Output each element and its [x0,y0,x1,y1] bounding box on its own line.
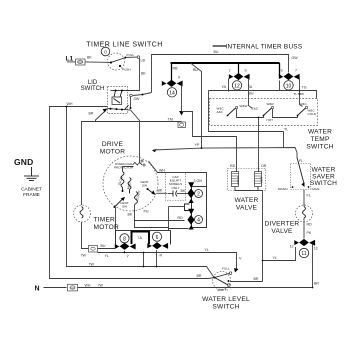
svg-text:BR: BR [254,277,259,281]
svg-text:PU: PU [144,210,149,214]
svg-text:WATER: WATER [308,129,332,136]
svg-text:WH: WH [67,102,73,106]
svg-text:TIMER LINE SWITCH: TIMER LINE SWITCH [86,42,163,49]
svg-text:YP: YP [195,143,200,147]
wire water level output [230,277,263,282]
TIMER MOTOR [74,205,91,222]
wire temp sw to saver feeder [284,128,289,148]
svg-text:9: 9 [245,69,247,73]
svg-text:TA: TA [248,85,253,89]
wire cam10 right arm [294,79,307,102]
svg-text:TL BBK: TL BBK [294,92,305,96]
diverter valve [296,205,313,222]
svg-text:RB: RB [173,67,179,71]
svg-text:SWITCH: SWITCH [81,86,105,92]
svg-text:WATER: WATER [234,197,258,204]
lid switch [108,85,140,114]
cam 4 [187,209,194,230]
label LID SWITCH [81,80,105,92]
wire start winding to cam4 [128,205,185,228]
svg-text:VALVE: VALVE [271,228,293,235]
svg-text:COLD: COLD [308,112,317,116]
terminal 0 [101,47,110,56]
wire cam14 branch trunk [182,112,237,173]
svg-text:RD: RD [230,164,236,168]
svg-text:7A: 7A [138,236,143,240]
cam 14 [162,63,183,97]
svg-text:SW: SW [142,184,147,188]
wire cent sw to block junction [169,207,185,231]
svg-text:MOTOR: MOTOR [100,149,125,156]
svg-text:ONLY: ONLY [171,186,179,190]
wire valve common to cam11 [235,187,296,282]
wire cam14 right arm down to timer motor connector [178,85,186,128]
GND [14,157,42,198]
wire top line to cam 10 [152,50,299,93]
svg-text:W&R: W&R [267,102,275,106]
label WATER LEVEL SWITCH [202,296,250,311]
svg-text:EMPTY: EMPTY [218,288,229,292]
svg-text:R: R [160,254,163,258]
svg-text:YL: YL [273,256,277,260]
svg-text:BR: BR [89,112,94,116]
svg-text:13: 13 [314,247,318,251]
cam 12 [229,63,250,90]
svg-text:9: 9 [281,69,283,73]
svg-text:14: 14 [169,91,175,97]
wire switch to riser [127,57,146,62]
wire lid switch output [133,93,152,96]
wire mid feeder line [209,91,317,132]
wire cam12 left arm [222,79,230,92]
wire left loop inner [66,106,215,278]
svg-text:TIMER: TIMER [94,217,116,224]
svg-text:7: 7 [295,69,297,73]
svg-text:FL: FL [307,194,311,198]
svg-text:SW: SW [122,205,127,209]
svg-text:SWITCH: SWITCH [306,144,333,151]
svg-text:PUSH: PUSH [122,68,131,72]
label DRIVE MOTOR [100,141,125,156]
svg-text:MOTOR: MOTOR [94,224,119,231]
wire saver feeder [152,143,297,158]
WATER TEMP SWITCH [210,99,318,126]
svg-text:TG: TG [302,86,307,90]
svg-text:DRIVE: DRIVE [102,141,124,148]
wire L1 to switch [85,56,111,63]
svg-text:BU: BU [193,68,198,72]
wire timer motor down to connector [81,222,98,258]
capacitor unit [166,173,189,201]
svg-text:12: 12 [234,84,240,90]
svg-text:BK: BK [158,188,163,192]
svg-text:BK: BK [181,189,186,193]
neutral N line [35,284,313,293]
svg-text:CABINET: CABINET [21,187,42,193]
svg-text:SW: SW [134,97,140,101]
svg-text:RD: RD [178,216,184,220]
wire buss branch to cold valve trunk [191,63,236,168]
wire left loop outer [50,102,215,279]
INTERNAL TIMER BUSS legend [213,44,303,51]
svg-text:4: 4 [197,218,200,224]
WATER LEVEL SWITCH [213,267,232,293]
svg-text:RD: RD [307,223,313,227]
svg-text:BU: BU [214,50,219,54]
svg-text:YA: YA [222,85,227,89]
svg-text:W&W: W&W [240,104,248,108]
wire cam4 bottom exit [169,228,189,230]
svg-text:BK: BK [141,72,146,76]
wire cam8 down [124,251,130,259]
svg-text:N: N [35,286,40,293]
svg-text:10: 10 [286,84,292,90]
wire diverter to cam11 [304,218,312,239]
wire lid switch to drive motor [131,110,140,159]
timer line switch [108,53,140,72]
svg-text:COLD: COLD [236,175,240,184]
wire riser down to lid switch [140,59,147,85]
svg-text:7W: 7W [89,263,95,267]
label DIVERTER VALVE [265,221,300,236]
wire hot valve feed [259,126,267,173]
label WATER VALVE [234,197,258,212]
svg-text:PULL: PULL [127,53,135,57]
wire motor to block 8/6 [115,208,117,231]
connector CO [67,59,85,65]
svg-text:BU: BU [249,92,254,96]
svg-text:FRAME: FRAME [23,192,40,198]
cam 10 [279,69,300,91]
svg-text:SWITCH: SWITCH [310,180,337,187]
wire lid switch to TM line [89,109,108,122]
svg-text:TEMP: TEMP [310,136,330,143]
label WATER TEMP SWITCH [306,129,333,151]
svg-text:WATER LEVEL: WATER LEVEL [202,296,250,303]
contact block 2/4 [169,179,207,230]
cam 11 [290,239,318,258]
svg-text:HOT: HOT [260,177,264,184]
svg-text:7W: 7W [81,254,87,258]
contact block 8/6 [115,231,171,250]
svg-text:8: 8 [123,237,126,243]
svg-text:BR: BR [314,282,319,286]
svg-text:C&C: C&C [252,107,259,111]
wire lower bus to water level full [98,248,243,273]
svg-text:YL: YL [105,254,109,258]
wire motor WH to block [149,161,207,187]
cam 2 [187,182,194,203]
svg-text:VALVE: VALVE [236,205,258,212]
svg-text:7W: 7W [98,284,104,288]
wire cam11 right arm to neutral [312,245,320,289]
svg-text:12: 12 [290,245,294,249]
svg-text:A&C: A&C [217,110,224,114]
label WATER SAVER SWITCH [310,167,337,188]
svg-text:LB: LB [141,59,146,63]
wire saver to diverter [304,190,311,207]
svg-text:CO: CO [70,286,75,290]
svg-text:HOT: HOT [267,118,274,122]
wire buss to cam10 left arm [279,63,281,76]
svg-text:GND: GND [14,157,34,167]
svg-text:BK: BK [128,213,133,217]
svg-text:DIVERTER: DIVERTER [265,221,300,228]
svg-text:6: 6 [156,235,159,241]
svg-text:BK: BK [87,56,92,60]
svg-text:FULL: FULL [222,267,230,271]
svg-text:INTERNAL TIMER BUSS: INTERNAL TIMER BUSS [226,44,303,51]
svg-text:BU: BU [101,244,106,248]
svg-text:SWITCH: SWITCH [212,304,239,311]
svg-text:2: 2 [197,192,200,198]
svg-text:3 GN: 3 GN [194,179,203,183]
wire TM line to timer motor [82,117,182,205]
svg-text:DRAIN: DRAIN [278,187,288,191]
svg-text:FL: FL [299,159,303,163]
wire cam6 down [156,250,163,267]
svg-text:PK: PK [307,231,312,235]
svg-text:BR: BR [197,274,202,278]
svg-text:WH: WH [159,169,165,173]
wire cam12 right arm into temp switch [248,79,254,102]
notch link 2-4 [185,204,190,211]
internal timer buss wire [171,63,280,71]
wire motor BK to capacitor [157,188,168,193]
svg-text:GW: GW [292,56,299,60]
wire junction riser [143,252,145,268]
svg-text:7: 7 [229,69,231,73]
svg-text:9: 9 [178,76,180,80]
svg-text:TL: TL [284,128,288,132]
svg-text:0: 0 [104,50,107,55]
svg-text:SAVE: SAVE [312,187,320,191]
WATER SAVER SWITCH [278,158,320,192]
drive motor M1 [103,156,158,211]
label TIMER MOTOR [94,217,119,232]
WATER VALVE [228,169,266,191]
svg-text:WH: WH [85,284,91,288]
svg-text:11: 11 [301,251,306,257]
svg-text:OR: OR [261,164,267,168]
svg-text:YL: YL [205,248,209,252]
svg-text:TM: TM [168,117,173,121]
wire connector to cam8 left [98,244,116,249]
